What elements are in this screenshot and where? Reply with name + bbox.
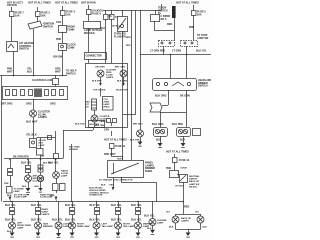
ground [36,233,41,237]
svg-text:SWITCH: SWITCH [19,48,29,51]
radio illumination lamp [53,172,60,179]
column x38 [38,202,40,208]
wire [174,162,176,170]
svg-text:5A: 5A [109,15,112,18]
wire [154,30,174,32]
bus line y54 [140,54,211,56]
svg-text:CONNECTOR: CONNECTOR [86,55,102,58]
wire [113,177,115,187]
wire [183,202,185,215]
ground [70,233,75,237]
lamp cluster A [154,128,168,137]
ground [136,233,141,237]
wire [186,90,188,112]
column x12 [12,202,14,208]
svg-text:LAMPS: LAMPS [38,116,47,119]
svg-text:LAMP: LAMP [39,144,46,147]
svg-text:BRN: BRN [126,37,131,39]
wire [163,46,165,54]
wire [105,19,107,63]
wire [111,19,113,63]
svg-text:BLK TAN: BLK TAN [90,123,100,126]
ground [116,233,121,237]
circuit breaker [155,10,157,14]
svg-text:RED: RED [167,23,172,26]
svg-text:LAMP: LAMP [61,175,68,178]
lamp outage module [84,22,101,29]
cluster illumination lamp [30,110,37,117]
svg-text:SAFETY: SAFETY [189,178,198,181]
svg-text:HOT IN RUN: HOT IN RUN [81,1,96,4]
wire trunk [123,11,136,115]
svg-text:CONNECTOR: CONNECTOR [89,195,103,197]
wire [170,54,172,78]
svg-text:BLK: BLK [180,139,185,142]
headlamp switch section B [181,41,198,47]
back-up lamp left [172,216,179,223]
svg-text:BLK YEL: BLK YEL [21,162,32,165]
svg-text:DK GRN: DK GRN [180,95,190,98]
resistor [92,99,97,110]
svg-text:BLK: BLK [22,186,27,188]
wire [193,5,195,10]
wire [111,148,113,156]
svg-text:FUSE 9: FUSE 9 [92,12,101,15]
svg-text:BLK PNK: BLK PNK [130,140,140,142]
wire [100,77,102,83]
svg-text:BLK YEL: BLK YEL [111,204,122,207]
lamp [93,222,100,229]
svg-text:BLK YEL: BLK YEL [131,219,142,222]
A/C heater control switch [7,42,18,52]
glove box lamp connector [30,139,37,148]
svg-text:BRT ORG: BRT ORG [1,103,13,106]
svg-text:LT GRN: LT GRN [172,50,181,53]
svg-text:ILLUM LP: ILLUM LP [33,181,44,183]
fuse F12 [110,15,115,20]
lamp [115,222,122,229]
fuse F4 [61,11,66,16]
svg-text:BLK: BLK [50,195,55,197]
svg-text:10A: 10A [66,13,71,16]
svg-text:WHT: WHT [55,70,61,73]
neutral safety / back-up lamp switch [180,175,188,183]
wire left feed [1,76,3,202]
svg-text:VIO: VIO [166,212,170,214]
svg-text:HOT AT ALL TIMES: HOT AT ALL TIMES [28,1,51,4]
svg-text:TAN: TAN [117,157,122,160]
ground [160,136,162,143]
svg-text:BLK YEL: BLK YEL [196,50,207,53]
column x28 lamp [28,160,30,166]
svg-text:LT GRN RED: LT GRN RED [150,50,165,53]
splice wire [37,137,56,139]
headlamp dimmer switch [153,79,197,91]
ground [138,142,143,146]
fuse F11 [104,15,109,20]
fuse F7 [10,12,15,17]
fuse F9 [87,10,92,15]
back-up lamp right [197,216,204,223]
wire [62,15,64,25]
svg-text:SWITCH: SWITCH [43,25,53,28]
wire [154,21,156,30]
svg-text:NO 5: NO 5 [161,18,167,21]
wire [186,46,188,54]
wire [62,50,64,75]
wire [94,110,96,115]
svg-text:OR: OR [86,107,90,109]
svg-text:BLK YEL: BLK YEL [90,219,101,222]
wire trunk [140,10,142,130]
wire [111,156,122,158]
fuse F14 [110,144,115,149]
svg-text:BLK ORG: BLK ORG [155,95,167,98]
wire [111,131,113,136]
illumination feed lamp 1 [97,70,104,77]
svg-text:BLK YEL: BLK YEL [5,204,16,207]
wire [193,15,195,40]
ground [150,230,155,234]
svg-text:ORG: ORG [109,185,114,187]
svg-text:20A: 20A [197,13,202,16]
column x72 [72,202,74,208]
wire trunk [131,10,133,160]
svg-text:YEL BLK: YEL BLK [26,134,37,137]
dimmer rheostat box [108,161,144,178]
wire [160,112,186,114]
svg-text:ORG: ORG [26,103,32,106]
svg-text:HOT AT ALL TIMES: HOT AT ALL TIMES [55,1,78,4]
connector pins [53,184,59,191]
column x138 [138,202,140,208]
svg-text:BLK: BLK [169,227,174,229]
cluster rheostat box [103,97,114,111]
wire [40,155,42,160]
wire [11,16,13,41]
connector arrow [55,197,58,201]
svg-text:TAN: TAN [56,21,61,24]
svg-text:LAMP: LAMP [17,227,24,230]
bus feed line [103,10,161,12]
wire [33,117,35,138]
wire [62,6,64,10]
svg-text:BRT GRN: BRT GRN [115,67,125,69]
svg-text:LAMP SW: LAMP SW [189,183,200,186]
junction dots bus54 [170,54,172,56]
column x118 [118,202,120,208]
svg-text:CLUSTER ILLUM: CLUSTER ILLUM [32,79,52,82]
svg-text:BLK YEL: BLK YEL [131,204,142,207]
svg-text:BACK-UP: BACK-UP [189,180,200,183]
svg-text:BLK YEL: BLK YEL [52,219,63,222]
wire [55,75,57,78]
svg-text:SWITCH: SWITCH [66,72,76,75]
svg-text:OR RUN: OR RUN [7,4,17,7]
cluster illumination lamp [91,115,98,122]
svg-text:GRY PNK: GRY PNK [95,67,105,69]
wire [186,54,188,78]
lamp [135,222,142,229]
ground [10,233,15,237]
wire [122,177,157,202]
ignition switch S1 [28,21,42,29]
cluster pins [107,119,111,123]
wire riser [161,4,163,10]
ground [38,188,42,191]
svg-text:ILLUM LAMP: ILLUM LAMP [14,196,27,199]
svg-text:MODULE: MODULE [84,32,95,35]
svg-text:BLK YEL: BLK YEL [111,219,122,222]
svg-text:FUSE 14: FUSE 14 [115,145,126,148]
svg-text:TAIL LAMP: TAIL LAMP [102,225,114,228]
wire [40,160,42,172]
wire [33,29,35,75]
connector arrow [9,197,12,201]
svg-text:BLK GRN: BLK GRN [117,81,127,83]
main cluster box [86,64,128,128]
ash receiver connector [37,149,44,156]
svg-text:PNK WHT: PNK WHT [104,153,116,156]
svg-text:HOT AT ALL TIMES: HOT AT ALL TIMES [104,139,127,142]
svg-text:TAIL LAMP: TAIL LAMP [123,225,135,228]
clock connector [59,44,67,51]
svg-text:WHT: WHT [7,70,13,73]
instrument cluster box [3,87,68,100]
fuse F3 [36,12,41,17]
svg-text:CONN: CONN [67,28,75,31]
column x152 license lamp [152,202,154,219]
svg-text:BLK YEL: BLK YEL [5,219,16,222]
svg-text:IGN SW: IGN SW [53,56,63,59]
svg-text:GRY: GRY [104,129,110,132]
svg-text:FUSE 13: FUSE 13 [179,159,190,162]
svg-text:PNK: PNK [56,38,61,41]
ground [26,188,31,192]
svg-text:SWITCH: SWITCH [198,85,208,88]
svg-text:LAMP: LAMP [157,222,164,225]
svg-text:TAN: TAN [40,155,45,158]
wire [176,229,201,231]
svg-text:W/ RHEO: W/ RHEO [69,149,79,151]
connector [170,171,179,178]
svg-text:LAMPS: LAMPS [106,76,114,79]
bus y158 [4,158,63,160]
svg-text:BLK YEL: BLK YEL [65,219,76,222]
svg-text:HOT AT ALL TIMES: HOT AT ALL TIMES [176,1,199,4]
fuse F5 [192,11,197,16]
wire [88,28,90,52]
wire [183,182,185,202]
svg-text:RED: RED [126,45,131,47]
fusible link [172,6,176,18]
svg-text:LAMPS: LAMPS [42,213,50,216]
wire [177,174,179,176]
column x58 license lamp [58,202,60,223]
svg-text:BRT BLU: BRT BLU [133,124,143,126]
svg-text:BLK YEL: BLK YEL [65,204,76,207]
svg-text:BACK UP: BACK UP [181,217,192,220]
bottom bus [3,201,183,203]
svg-text:RED: RED [184,206,189,209]
svg-text:PNK: PNK [4,183,9,185]
svg-text:BLK PNK: BLK PNK [172,123,183,126]
lamp cluster B [177,128,191,137]
component [54,154,59,159]
svg-text:BLK WHT: BLK WHT [26,121,38,124]
svg-text:PNK: PNK [166,167,171,170]
connector C2 [85,53,107,60]
svg-text:VIO BLK: VIO BLK [175,186,184,188]
wire [55,131,57,153]
svg-text:REAR: REAR [42,208,49,211]
side marker lamp [35,222,42,229]
svg-text:RHEO: RHEO [104,107,110,109]
lamp [69,222,76,229]
svg-text:BLK: BLK [35,186,40,188]
A/C control illumination lamp [25,175,32,182]
courtesy lamp [37,175,44,182]
wire [88,14,90,21]
svg-text:NEUTRAL: NEUTRAL [189,175,200,178]
wire [93,127,95,130]
svg-text:PNK: PNK [189,26,194,29]
wire [123,77,125,83]
wire [100,88,102,97]
svg-text:LAMPS: LAMPS [181,220,189,223]
column x56 lamp [55,160,57,172]
connector arrow [150,103,162,112]
svg-text:SELECTOR: SELECTOR [116,90,128,92]
svg-text:FLASHER: FLASHER [114,35,126,38]
wire [122,10,124,16]
wire [111,122,113,126]
wire [62,32,64,43]
svg-text:ORG: ORG [50,103,56,106]
svg-text:(W/ A/T): (W/ A/T) [189,185,197,188]
svg-text:BLK YEL: BLK YEL [144,215,155,218]
ground [94,233,99,237]
wire [105,10,107,14]
headlamp switch section A [159,41,175,47]
ground [186,233,191,237]
wire [174,154,176,157]
junction dots [13,75,15,77]
svg-text:FRONT PARK: FRONT PARK [17,224,32,227]
svg-text:PARK LAMP: PARK LAMP [77,225,90,228]
wire long [71,144,73,202]
wire [88,59,90,63]
wire trunk [122,31,124,160]
turn signal flasher [118,17,128,32]
svg-text:BLK YEL: BLK YEL [48,162,59,165]
ground [56,233,61,237]
svg-text:10A: 10A [15,14,20,17]
column x10 [10,160,12,169]
wire [33,99,35,110]
svg-text:TOP GAUGE: TOP GAUGE [93,89,106,92]
radio connector [59,26,67,33]
wire [37,7,39,11]
svg-text:LAMP: LAMP [14,190,21,193]
svg-text:BLK: BLK [27,70,32,73]
wire [11,7,13,11]
park lamp [9,222,16,229]
illumination feed lamp 2 [120,70,127,77]
wire [37,16,39,21]
column x96 [96,202,98,208]
mid small box [89,121,105,128]
svg-text:VIO: VIO [195,212,199,214]
mid bus y75 [0,75,67,77]
svg-text:LAMP SW: LAMP SW [197,37,209,40]
wire [168,90,170,105]
inline connector [38,165,43,168]
ground [183,136,185,143]
svg-text:BLK YEL: BLK YEL [90,204,101,207]
svg-text:BLK TAN: BLK TAN [75,123,85,126]
svg-text:BLK YEL: BLK YEL [31,204,42,207]
svg-text:TO TRAILER TOW CONNECTOR: TO TRAILER TOW CONNECTOR [99,179,133,182]
svg-text:RHEO: RHEO [145,170,152,173]
svg-text:BLK: BLK [147,228,152,230]
wire [175,223,177,230]
wire corner [63,130,93,132]
connector arrow [112,187,115,191]
svg-text:30A: 30A [41,14,46,17]
connector [7,187,13,194]
wire [13,51,15,75]
wire [174,18,176,40]
wire [40,138,42,149]
fuse F13 [173,158,178,163]
svg-text:HOT AT ALL TIMES: HOT AT ALL TIMES [166,151,189,154]
wire [111,10,113,14]
svg-text:BLK: BLK [100,27,105,30]
svg-text:BLK: BLK [203,227,208,229]
svg-text:CONN: CONN [180,168,187,170]
inline lamp [48,136,52,140]
svg-text:BLK YEL: BLK YEL [31,219,42,222]
svg-text:MARKER: MARKER [43,225,53,228]
wire [88,5,90,9]
svg-text:BLK: BLK [101,185,106,187]
svg-text:CONN: CONN [67,46,75,49]
svg-text:DK GRN RED: DK GRN RED [13,156,29,159]
svg-text:BLK ORG: BLK ORG [152,123,164,126]
